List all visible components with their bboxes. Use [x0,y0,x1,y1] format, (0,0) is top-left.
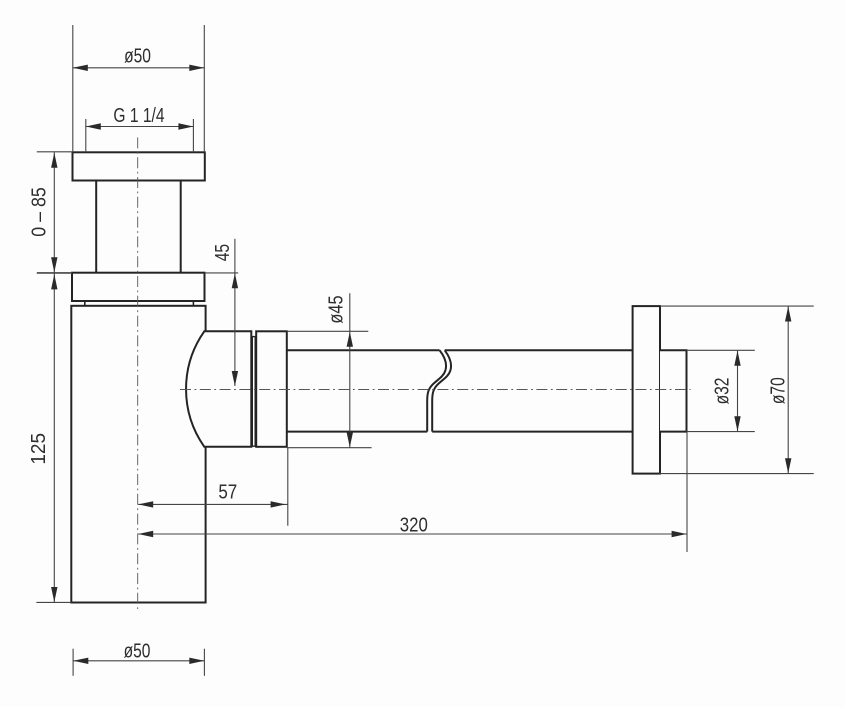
svg-text:G 1 1/4: G 1 1/4 [113,104,164,126]
extension line ø50 bottom left [72,649,74,676]
pipe break left curve [427,350,446,431]
tailpiece top flange [73,152,205,180]
outlet collar ring [256,331,287,447]
extension line ø32 bottom [687,431,755,433]
arrow 320 left [138,531,153,537]
dimension line ø45 [349,293,351,447]
arrow 45 top [232,273,238,288]
tailpiece pipe left wall [95,181,97,274]
extension line 320 vertical [686,432,688,552]
trap body cylinder [71,306,205,603]
pipe break right curve [432,350,451,431]
arrow 125 top [51,274,57,289]
pipe break gap [427,350,451,431]
flange seam tick right [192,301,194,306]
arrow G 1 1/4 right [178,123,193,129]
arrow ø45 top [347,332,353,347]
svg-text:320: 320 [400,513,428,536]
flange seam tick left [84,301,86,306]
outlet pipe top edge (right of break) [445,349,633,351]
dimension line 320 [138,533,687,535]
arrow ø50 top right [189,65,204,71]
extension line ø70 top [660,305,814,307]
extension line ø50 top right [203,25,205,152]
arrow 125 bottom [51,587,57,602]
extension line G 1 1/4 left [85,119,87,152]
svg-text:0 – 85: 0 – 85 [29,187,51,236]
extension line ø45 bottom [287,447,372,449]
svg-text:57: 57 [218,480,237,503]
tailpiece pipe right wall [180,181,182,274]
extension line ø50 bottom right [203,649,205,676]
dimension line ø50 bottom [73,660,204,662]
dimension line ø50 top [73,67,205,69]
arrow ø50 bottom right [189,658,204,664]
arrow 0-85 bottom [51,257,57,272]
extension line left of body bottom [36,601,71,603]
vertical centerline [137,137,139,609]
outlet nut with spherical bulge [186,331,251,447]
svg-text:ø70: ø70 [767,377,789,404]
extension line G 1 1/4 right [192,119,194,152]
dimension line 0-85 [53,152,55,273]
dimension line G 1 1/4 [86,126,194,128]
extension line left of body flange [37,272,72,274]
extension line ø70 bottom [659,473,813,475]
extension line ø45 top [287,330,369,332]
arrow ø32 bottom [734,416,740,431]
body top flange [72,273,205,301]
wall pipe stub [660,350,687,431]
outlet pipe bottom edge (left of break) [287,431,427,433]
arrow 57 left [138,501,153,507]
outlet pipe bottom edge (right of break) [432,431,632,433]
horizontal centerline [180,389,691,391]
wall flange rosette [633,306,660,474]
svg-text:45: 45 [211,244,233,261]
svg-text:ø50: ø50 [124,640,151,662]
dimension line 45 [234,239,236,386]
arrow ø32 top [734,351,740,366]
arrow 0-85 top [51,153,57,168]
extension line ø50 top left [72,25,74,152]
outlet seam ring [252,337,255,447]
extension line ø32 top [687,349,755,351]
arrow ø50 bottom left [73,658,88,664]
extension line left of top flange [37,151,73,153]
dimension line ø32 [737,350,739,431]
svg-text:125: 125 [28,433,51,465]
outlet pipe top edge (left of break) [287,349,440,351]
extension line 57 vertical [287,448,289,526]
arrow 320 right [672,531,687,537]
extension line right of body flange (45 dim) [205,272,239,274]
arrow 45 bottom [232,371,238,386]
dimension line 125 [53,273,55,602]
svg-text:ø50: ø50 [124,45,151,67]
arrow G 1 1/4 left [86,123,101,129]
dimension line 57 [138,503,288,505]
arrow ø70 bottom [785,458,791,473]
dimension line ø70 [787,306,789,474]
arrow 57 right [271,501,286,507]
arrow ø50 top left [73,65,88,71]
svg-text:ø32: ø32 [711,378,733,405]
svg-text:ø45: ø45 [324,295,347,323]
arrow ø70 top [785,307,791,322]
arrow ø45 bottom [347,432,353,447]
